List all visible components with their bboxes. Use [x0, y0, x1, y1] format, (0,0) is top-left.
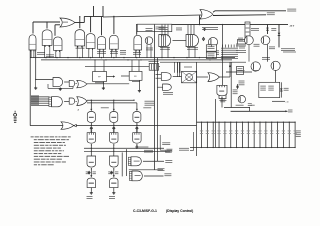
matrix top rail — [197, 121, 296, 123]
wire G21 out — [143, 160, 164, 162]
labels right of Q2 — [236, 43, 246, 46]
node diamond column2 — [113, 123, 115, 126]
matrix resistor column 5 — [224, 122, 226, 147]
wire matrix left feed — [190, 150, 193, 152]
wire feedback loop G13 — [47, 84, 49, 88]
wire vertical left 2 — [35, 50, 37, 80]
matrix resistor column 8 — [241, 122, 243, 147]
matrix resistor column 3 — [212, 122, 214, 147]
or gate G20 — [61, 122, 74, 130]
wire OR A1 output — [75, 22, 84, 24]
wire G13 out long — [87, 83, 129, 85]
wire bottom bus right — [224, 107, 250, 109]
vertical right pair — [153, 25, 155, 170]
or gate A2 — [200, 10, 213, 19]
matrix resistor column 6 — [230, 122, 232, 147]
node diamond col3 low — [136, 146, 138, 149]
matrix resistor column 7 — [236, 122, 238, 147]
wire arrow 38 — [231, 110, 288, 112]
register box MA — [137, 24, 172, 31]
wire from OR A1 inputs — [32, 22, 34, 34]
svg-text:+10: +10 — [285, 101, 288, 103]
gate G9 delay — [159, 35, 171, 47]
svg-text:(Display Control): (Display Control) — [166, 209, 193, 213]
matrix resistor column 2 — [206, 122, 208, 147]
ground column2 — [113, 188, 115, 192]
label MB END — [179, 147, 189, 150]
wire G10 inputs — [187, 25, 189, 35]
labels col tops — [101, 106, 109, 109]
matrix resistor column 12 — [265, 122, 267, 147]
labels under top gates — [37, 51, 45, 54]
flip-flop FF1 — [93, 72, 107, 82]
resistor R5600 — [233, 89, 238, 92]
pulse amplifier PA2 — [42, 30, 52, 46]
pulse amplifier PA8 — [134, 35, 142, 50]
transistor Q3 — [245, 36, 254, 45]
wire PA8 top — [136, 25, 138, 35]
label FF1 — [95, 81, 104, 84]
wire pin drops top row — [30, 50, 32, 58]
module box under Q2 b — [206, 52, 216, 58]
wire Q3 to Q5 — [248, 45, 250, 62]
wire feeds — [248, 108, 250, 112]
node diamond above J1 — [203, 28, 205, 31]
pin box PA9 — [219, 94, 226, 99]
matrix resistor column 13 — [271, 122, 273, 147]
node junction J1 — [202, 37, 205, 40]
label PA9 — [219, 97, 226, 100]
gate G12 — [69, 80, 74, 86]
resistor box RC2 — [237, 67, 244, 75]
node diamond column1 — [90, 123, 92, 126]
pulse amplifier PA1 — [29, 35, 36, 50]
wire vertical right — [267, 45, 269, 62]
wire top bus — [103, 15, 201, 17]
label G15 — [163, 91, 173, 94]
label +10 A — [281, 47, 295, 50]
wire FF link — [107, 76, 114, 78]
or gate G19 — [77, 97, 87, 106]
transistor Q1 — [145, 37, 153, 45]
matrix resistor column 14 — [277, 122, 279, 147]
inverter column1 mid — [87, 133, 95, 143]
wire vertical col3 — [126, 149, 128, 176]
ground FF2 — [138, 80, 140, 89]
and gate G15 — [163, 84, 172, 90]
capacitor C1 — [230, 62, 232, 108]
wire G9 inputs — [161, 25, 163, 37]
labels right wires — [165, 149, 172, 152]
matrix resistor column 10 — [253, 122, 255, 147]
connector box right pair — [149, 64, 158, 71]
and gate G11 — [53, 78, 63, 87]
wire clock row — [30, 125, 196, 127]
label OR A1 — [63, 21, 68, 24]
node diamond column2 low — [110, 171, 112, 174]
wire G22 out — [144, 175, 164, 177]
wire OR A2 input — [198, 16, 200, 25]
diode D2 — [278, 25, 280, 48]
and gate G14 — [161, 73, 171, 81]
labels Q3 Q4 — [238, 37, 243, 40]
wire G11-G12-G13 — [64, 81, 69, 83]
label FF2 — [132, 80, 140, 83]
inverter column3 mid — [133, 133, 141, 143]
wire G19 out to columns — [87, 99, 134, 101]
wire to PA6 PA7 — [101, 17, 103, 35]
wire G16 out — [219, 76, 230, 78]
transistor Q4 — [261, 36, 270, 45]
ground FF1 — [102, 82, 104, 87]
pulse amplifier column2 top — [113, 109, 115, 111]
module box under Q2 a — [206, 45, 216, 51]
node diamond column3 — [136, 123, 138, 126]
pulse amplifier column3 top — [136, 109, 138, 111]
wire mid bus 3 — [160, 61, 246, 63]
wire col out row 1 — [84, 147, 164, 149]
transistor Q6 — [271, 61, 280, 70]
transistor Q7 — [238, 96, 245, 103]
or gate G16 — [208, 73, 219, 82]
wire mid bus 2 — [41, 59, 232, 61]
labels Q5 Q6 — [262, 56, 270, 59]
labels under Q7 — [236, 104, 244, 107]
pulse amplifier column1 top — [90, 109, 92, 111]
wire y72 — [226, 71, 252, 73]
or gate G13 — [77, 80, 87, 88]
label G21 top — [136, 146, 148, 149]
and gate G17 — [52, 97, 63, 107]
matrix resistor column 9 — [247, 122, 249, 147]
matrix resistor column 1 — [201, 122, 203, 147]
matrix bottom rail — [190, 147, 295, 149]
notes text block — [31, 135, 34, 138]
wire FF drops — [94, 60, 96, 69]
and gate G22 — [132, 171, 142, 181]
pulse amplifier column2 bottom — [110, 178, 118, 188]
wire mid bus 1 — [30, 57, 235, 59]
wire A2 out upper — [213, 11, 215, 12]
wire mid verticals — [196, 62, 198, 156]
wire to PA4 PA5 — [79, 17, 81, 29]
wire A2 out lower — [213, 14, 266, 17]
ground G-left — [35, 80, 37, 87]
node dot J2 — [229, 65, 231, 67]
diode D1 — [267, 25, 269, 34]
wire long vertical x222 — [222, 25, 224, 86]
matrix right label — [296, 130, 301, 133]
labels under columns — [87, 195, 93, 198]
wire M1 drops — [174, 62, 176, 72]
input stubs left — [31, 96, 50, 98]
pulse amplifier PA7 — [110, 35, 119, 49]
gate G10 delay — [186, 35, 199, 47]
label M1 — [184, 66, 192, 69]
diode D3 — [280, 82, 282, 97]
inverter column2 mid — [110, 133, 118, 143]
gate G18 — [69, 98, 74, 104]
matrix resistor column 17 — [294, 122, 296, 147]
wire PA9 out — [221, 97, 223, 108]
pulse amplifier PA4 — [75, 30, 85, 46]
wire bus MB — [138, 24, 289, 26]
label column MB bits — [221, 47, 238, 50]
junction dots mid bus — [45, 57, 46, 58]
or gate A1 — [60, 18, 75, 27]
wire M1 to G16 — [197, 76, 208, 78]
pulse amplifier PA6 — [98, 36, 106, 49]
label PA row — [146, 27, 153, 30]
matrix resistor column 15 — [282, 122, 284, 147]
pulse amplifier PA3 — [54, 37, 62, 50]
resistor box RC network — [259, 82, 280, 97]
box MB17 — [238, 40, 246, 45]
wire mid bus 4 — [85, 65, 160, 67]
wire stub top — [102, 6, 104, 17]
wire +10 stub — [272, 100, 285, 102]
ground G11 — [59, 88, 61, 89]
pulse amplifier PA5 — [86, 34, 95, 49]
wire lower cross — [129, 169, 163, 171]
wire vertical left — [29, 50, 31, 126]
drawing number vertical — [14, 111, 16, 113]
wire G9-G10 link — [173, 40, 187, 42]
and gate G21 — [131, 157, 141, 166]
funnel gate PA9 — [217, 85, 227, 95]
wire Q2 down — [211, 45, 213, 47]
transistor Q2 — [208, 37, 217, 46]
relay module M1 — [182, 71, 197, 82]
label col3 right — [162, 141, 170, 144]
svg-text:C-C3-M/SF-G-1: C-C3-M/SF-G-1 — [133, 209, 157, 213]
transformer T1 — [245, 22, 250, 42]
connector labels NEG — [159, 135, 161, 150]
matrix resistor column 11 — [259, 122, 261, 147]
wire G14 to M1 — [173, 76, 182, 78]
matrix resistor column 16 — [288, 122, 290, 147]
matrix resistor column 4 — [218, 122, 220, 147]
ground column1 — [90, 188, 92, 192]
label R1 values — [251, 27, 259, 30]
inverter column2 low — [110, 156, 119, 167]
inverter column1 low — [87, 156, 96, 167]
svg-text:-15 V: -15 V — [289, 26, 295, 28]
transistor Q5 — [251, 62, 260, 71]
pulse amplifier column1 bottom — [87, 178, 95, 188]
node diamond column1 low — [88, 171, 90, 174]
flip-flop FF2 — [129, 71, 142, 80]
